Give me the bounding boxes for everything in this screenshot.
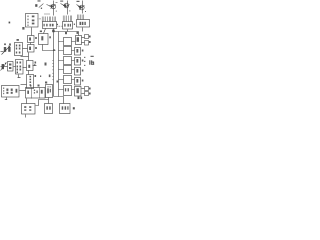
pins row 3 [77,15,83,20]
wire C1 to C2 [30,43,32,45]
transistor Q1 [47,3,58,9]
wire top rail [54,32,79,36]
label right B [35,75,37,77]
wire A to B [28,71,30,75]
label below R6 [78,97,83,100]
contact sq4 [85,92,89,96]
bus line 1 [53,34,55,97]
battery box BB [22,104,36,115]
wire top feed 3 [82,1,84,14]
wire S1 to C2 [23,48,28,50]
relay K5 [64,76,72,84]
power box P2 [26,88,46,99]
dot right of box2 [74,24,75,25]
display module box 3 [77,20,90,28]
wire top feed 2 [67,1,69,15]
label near bus bottom [57,81,59,83]
dots column [84,57,85,66]
ellipsis dots [58,25,63,28]
sensor element S2a [8,62,14,72]
label right U3 [49,36,51,38]
relay K2 [64,47,72,55]
labels right sq [89,36,91,44]
wire diag box1 to U3 [44,29,46,34]
wire P1 to P2 [20,90,26,92]
label right C1 [35,37,37,39]
wire chain down [28,53,30,61]
label right A [35,62,37,64]
wire into B left [21,84,27,86]
wire P2 down [26,99,28,104]
contact sq1 [85,35,89,39]
label above E [45,82,47,84]
label right G [73,107,75,109]
converter C1 [28,36,35,43]
label R2 [82,50,84,52]
U2 pin marks [28,16,35,26]
transistor Q3 [77,1,85,10]
controller U3 [39,34,49,45]
relay K6 [64,86,72,96]
stub below BB [25,115,27,118]
wire U2 bottom [31,28,33,36]
amp box S2 [16,60,24,75]
display module box 1 [43,22,57,29]
bus line 2 [58,32,60,97]
output box R6 [75,87,82,97]
pin number dots 1 [38,14,50,20]
sensor pair 1 [1,44,11,55]
wire BB right up [36,100,49,106]
pins row 1 [42,17,55,22]
wire R1 sq2 [82,42,85,44]
converter C2 [28,45,35,53]
wire R6 sq1 [82,88,85,90]
label 12 [22,27,24,30]
wire A out arrow [33,65,37,67]
pin specks [56,10,86,12]
dot right of box1 [57,24,58,25]
transistor Q2 [60,1,69,8]
relay K1 [64,38,72,46]
output box R1 [76,36,82,45]
wire box1 down to rail [53,29,55,34]
label above S1 [17,39,19,41]
driver box G [60,104,71,114]
bus tick marks [52,61,53,80]
label R3 [82,60,84,62]
contact sq2 [85,41,89,46]
ladder stubs left [59,42,64,90]
label center [45,63,47,66]
label near bus [49,75,51,78]
block A [27,61,34,71]
pins row 2 [63,16,71,22]
ground S2 [18,75,21,78]
label 1b [89,56,94,65]
ladder stubs right [72,42,76,90]
wire bus to G [54,97,64,104]
wire R6 sq2 [82,93,85,95]
wire stub left [21,56,29,58]
output box R5 [75,78,81,86]
relay K4 [64,66,72,74]
amp box S1 [15,43,23,56]
label above K1 [65,32,67,34]
label R4 [82,70,84,72]
clock box F [45,104,53,114]
contact sq3 [85,87,89,91]
output box R3 [75,58,81,66]
block B [27,75,34,89]
wire R1 sq1 [82,37,85,39]
relay K3 [64,57,72,65]
labels right sq bottom [89,88,91,95]
sensor pair 2 [1,63,8,71]
wire top feed 1 [53,1,55,16]
junction blob [52,30,54,33]
label above R1 [77,32,79,34]
output box R2 [75,48,81,56]
wire box3 down [82,28,84,32]
stray dot [9,22,11,24]
small dot center [40,76,41,77]
label 10 [35,0,42,9]
label right C2 [35,47,37,49]
label above U3 [40,31,42,33]
output box R4 [75,68,81,76]
label R5 [82,80,84,82]
label above P2 [30,85,40,87]
wire S2 to A [23,67,27,69]
wire S2a to S2 [14,66,16,68]
display unit U2 box [26,14,39,28]
display module box 2 [63,22,73,30]
power supply box P1 [2,86,20,98]
osc box E [46,85,53,98]
wire box2 down [67,30,69,32]
wire U3 down arrow to bus [43,45,56,51]
ground P1 [5,98,7,100]
wire E down to F [48,98,50,104]
